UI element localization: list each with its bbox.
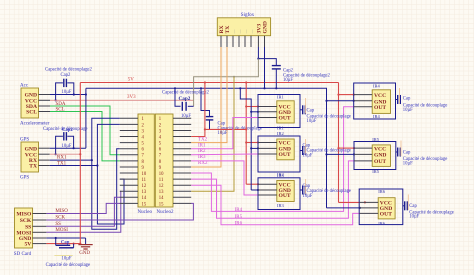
wire IR1 net <box>191 118 258 149</box>
capacitor C11 (IR5 decoupling) <box>396 141 448 167</box>
svg-text:OUT: OUT <box>374 159 386 165</box>
svg-text:13: 13 <box>142 190 147 195</box>
svg-text:Capacité de découplage: Capacité de découplage <box>46 263 91 268</box>
svg-text:Acc: Acc <box>20 84 29 89</box>
svg-text:10µF: 10µF <box>181 114 191 119</box>
svg-text:IR3: IR3 <box>277 203 285 208</box>
wire RX1 <box>50 118 120 229</box>
svg-text:Nucleo2: Nucleo2 <box>157 210 174 215</box>
svg-text:Capacité de découplage2: Capacité de découplage2 <box>162 91 210 96</box>
svg-text:10µF: 10µF <box>218 131 228 136</box>
svg-text:SCK: SCK <box>55 216 65 221</box>
wire Acc GND <box>50 93 87 95</box>
svg-text:Cap2: Cap2 <box>61 73 72 78</box>
IR sensor IR4 <box>354 83 396 119</box>
capacitor C5 Cap2 (Sigfox decoupling) <box>272 66 331 89</box>
wire GND rail to IR1-IR3 GND <box>240 88 259 191</box>
svg-text:IR3: IR3 <box>198 155 206 160</box>
svg-text:10µF: 10µF <box>403 161 413 166</box>
svg-text:Cap: Cap <box>307 108 315 113</box>
svg-text:GND: GND <box>374 153 386 159</box>
svg-text:3V3: 3V3 <box>127 95 136 100</box>
wire 5V horizontal bus <box>80 77 338 83</box>
svg-text:Cap: Cap <box>403 97 411 102</box>
connector J2 GPS <box>20 138 50 181</box>
svg-text:IR3: IR3 <box>277 173 285 178</box>
capacitor C12 (IR6 decoupling) <box>403 195 454 220</box>
svg-text:12: 12 <box>142 184 147 189</box>
capacitor C9 (IR3 decoupling) <box>300 179 351 199</box>
svg-text:Cap2: Cap2 <box>62 128 73 133</box>
capacitor C1 Cap2 (Acc decoupling) <box>45 68 93 102</box>
svg-text:SCK: SCK <box>20 218 32 224</box>
wire Sigfox GND pin <box>264 47 266 88</box>
svg-text:12: 12 <box>159 184 164 189</box>
capacitor C2 Cap2 (GPS decoupling) <box>43 127 88 155</box>
wire TX2 (orange) <box>191 47 227 143</box>
svg-text:IR5: IR5 <box>235 215 243 220</box>
svg-text:Sigfox: Sigfox <box>241 13 255 18</box>
svg-text:IR6: IR6 <box>235 222 243 227</box>
IR sensor IR3 <box>258 173 300 210</box>
wire IR3 net <box>191 155 258 195</box>
svg-text:10µF: 10µF <box>307 119 317 124</box>
svg-text:3V3: 3V3 <box>257 24 263 34</box>
svg-text:SCL: SCL <box>26 110 37 116</box>
wire Sigfox 3V3 pin <box>257 47 276 65</box>
svg-text:Cap: Cap <box>61 240 70 245</box>
svg-text:10: 10 <box>142 172 147 177</box>
svg-text:TX2: TX2 <box>198 138 208 143</box>
wire 5V rail to IR1-IR3 VCC <box>245 83 259 186</box>
svg-text:Cap2: Cap2 <box>179 96 191 102</box>
connector U1 Nucleo2 (right half) <box>155 114 191 215</box>
svg-text:IR1: IR1 <box>277 94 284 99</box>
capacitor C4 Cap (SD decoupling) <box>46 238 91 268</box>
svg-text:IR1: IR1 <box>277 126 284 131</box>
svg-text:VCC: VCC <box>374 93 386 99</box>
svg-text:5V: 5V <box>128 77 135 82</box>
svg-text:MOSI: MOSI <box>55 228 68 233</box>
wire GPS VCC to 5V rail <box>50 153 82 155</box>
wire 5V drop to Nucleo pin 4 <box>191 83 247 137</box>
wire 5V vertical rail (left) <box>79 83 81 244</box>
svg-text:OUT: OUT <box>380 212 392 218</box>
wire SD 5V <box>46 243 81 245</box>
wire 3V3 (Acc VCC) <box>50 95 194 100</box>
svg-text:IR6: IR6 <box>378 189 386 194</box>
svg-text:GPS: GPS <box>20 138 29 143</box>
wire SDA <box>50 102 120 155</box>
capacitor C6 (3V3/GND mid decoupling) <box>162 88 210 119</box>
wire IR4 net <box>191 107 354 213</box>
svg-text:IR5: IR5 <box>372 169 380 174</box>
wire TX1 <box>50 124 124 224</box>
svg-text:TX1: TX1 <box>57 161 67 166</box>
svg-text:5V: 5V <box>24 242 31 248</box>
wire 3V3 gray net <box>194 59 259 107</box>
svg-text:10µF: 10µF <box>303 194 313 199</box>
svg-text:GND: GND <box>263 21 269 33</box>
svg-text:IR1: IR1 <box>198 144 206 149</box>
svg-text:Accelerometer: Accelerometer <box>20 122 50 127</box>
IR sensor IR6 <box>359 189 403 226</box>
svg-text:TX: TX <box>29 164 37 170</box>
svg-text:Cap: Cap <box>403 150 411 155</box>
IR sensor IR1 <box>258 94 300 130</box>
svg-text:10µF: 10µF <box>62 257 72 262</box>
svg-text:GPS: GPS <box>20 176 29 181</box>
wire IR2 net <box>191 149 258 155</box>
svg-text:IR2: IR2 <box>277 131 284 136</box>
wire IR5 net <box>191 161 354 220</box>
svg-text:SCL: SCL <box>56 107 65 112</box>
wire IR6 net <box>191 185 359 226</box>
svg-text:MISO: MISO <box>55 209 68 214</box>
svg-text:OUT: OUT <box>374 105 386 111</box>
svg-text:VCC: VCC <box>374 146 386 152</box>
wire SD GND <box>46 237 85 239</box>
svg-text:IR2: IR2 <box>198 149 206 154</box>
svg-text:SD Card: SD Card <box>14 252 32 257</box>
svg-text:OUT: OUT <box>279 193 291 199</box>
wire GND rail to IR4-IR6 GND <box>325 100 361 209</box>
capacitor C7 (IR1 decoupling) <box>300 98 351 124</box>
svg-text:10: 10 <box>159 172 164 177</box>
wire GND left vertical (Acc/GPS) <box>85 88 87 148</box>
svg-text:SDA: SDA <box>56 102 66 107</box>
wire khaki net (Nucleo pin 13) <box>191 77 234 191</box>
svg-text:MISO: MISO <box>16 212 32 218</box>
connector U1 Nucleo (left half) <box>120 114 155 215</box>
IR sensor IR5 <box>354 137 396 174</box>
svg-text:Capacité de découplage: Capacité de découplage <box>307 149 352 154</box>
wire SCL <box>50 107 120 160</box>
svg-text:15: 15 <box>159 202 164 207</box>
wire RX2 (orange) <box>191 47 221 167</box>
svg-text:Nucleo: Nucleo <box>138 210 153 215</box>
svg-text:IR5: IR5 <box>372 137 380 142</box>
svg-text:10µF: 10µF <box>409 215 419 220</box>
svg-text:10µF: 10µF <box>403 108 413 113</box>
svg-text:10µF: 10µF <box>283 78 293 83</box>
ground symbol GND <box>78 238 92 256</box>
connector J4 Sigfox <box>217 13 270 47</box>
svg-text:14: 14 <box>142 196 147 201</box>
svg-text:10µF: 10µF <box>303 153 313 158</box>
wire SCK <box>46 203 193 220</box>
svg-text:14: 14 <box>159 196 164 201</box>
wire GND top bus <box>86 87 327 208</box>
svg-text:SS: SS <box>55 222 61 227</box>
svg-text:Capacité de découplage: Capacité de découplage <box>307 189 352 194</box>
svg-text:IR6: IR6 <box>378 221 386 226</box>
svg-text:IR4: IR4 <box>373 114 381 119</box>
svg-text:RX2: RX2 <box>198 161 208 166</box>
svg-text:11: 11 <box>142 178 147 183</box>
svg-text:15: 15 <box>142 202 147 207</box>
wire GPS GND <box>50 147 86 149</box>
IR sensor IR2 <box>258 131 300 177</box>
svg-text:IR4: IR4 <box>373 83 381 88</box>
capacitor C3 Cap3 <box>200 87 262 136</box>
svg-text:OUT: OUT <box>279 116 291 122</box>
wire SS <box>46 197 120 227</box>
svg-text:IR4: IR4 <box>235 208 243 213</box>
svg-text:Capacité de découplage2: Capacité de découplage2 <box>45 68 93 73</box>
capacitor C10 (IR4 decoupling) <box>396 88 448 113</box>
wire MOSI <box>46 191 120 233</box>
connector J1 Acc <box>20 84 50 127</box>
wire 5V rail to IR4-IR6 VCC <box>337 83 366 204</box>
capacitor C8 (IR2 decoupling) <box>300 139 351 158</box>
svg-text:Cap: Cap <box>409 204 417 209</box>
svg-text:RX1: RX1 <box>57 156 67 161</box>
svg-text:13: 13 <box>159 190 164 195</box>
svg-text:OUT: OUT <box>279 152 291 158</box>
connector J3 SD Card <box>14 208 47 257</box>
svg-text:11: 11 <box>159 178 164 183</box>
svg-text:GND: GND <box>79 251 90 256</box>
wire MISO <box>46 203 120 214</box>
